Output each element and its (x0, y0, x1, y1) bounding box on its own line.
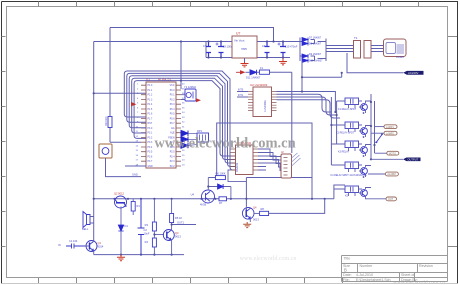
junction dot bridge bottom (301, 72, 343, 79)
title block (342, 256, 448, 282)
svg-text:LAMP1: LAMP1 (386, 126, 395, 129)
LED D12 (181, 131, 188, 137)
bus wire L3 (129, 76, 235, 163)
speaker LS1 (82, 212, 94, 232)
transistor Q7 (359, 145, 371, 157)
svg-text:www.elecworld.com.cn: www.elecworld.com.cn (240, 256, 297, 262)
svg-text:P3.7: P3.7 (148, 161, 153, 163)
port P4 (385, 172, 398, 176)
svg-text:R1: R1 (137, 204, 141, 208)
svg-text:D10 1N4007: D10 1N4007 (309, 59, 323, 62)
inline resistor R7 on rail (219, 197, 227, 205)
wire mid IC bottom loop (228, 170, 246, 182)
svg-text:P1.2: P1.2 (148, 95, 153, 97)
svg-text:Vin Vout: Vin Vout (234, 39, 245, 43)
LED D14 (181, 143, 188, 149)
resistor R2 divider top (145, 199, 157, 231)
regulator U7 7805 (227, 32, 257, 63)
relay K3 (331, 141, 362, 154)
bus wire L4 (132, 78, 236, 159)
wire bottom rail of regulator section (206, 42, 290, 58)
svg-text:www.elecworld.com.cn: www.elecworld.com.cn (154, 136, 295, 152)
svg-text:D8 1N4007: D8 1N4007 (309, 43, 322, 46)
svg-text:E:\Design\sheet1.Sch: E:\Design\sheet1.Sch (356, 278, 391, 282)
svg-text:B: B (344, 268, 347, 273)
wire to port P4 (368, 173, 385, 175)
svg-text:D7 1N4007: D7 1N4007 (309, 37, 322, 40)
svg-text:Revision: Revision (419, 264, 433, 268)
switch S2 (375, 133, 383, 143)
svg-text:Y1 12MHz: Y1 12MHz (184, 85, 197, 89)
wire to net label 2 (371, 158, 403, 160)
MCU U1 (146, 78, 176, 169)
svg-text:C10 470uF: C10 470uF (285, 45, 298, 49)
svg-text:4-Jul-2010: 4-Jul-2010 (356, 273, 373, 277)
wire mid IC to connector row2 (258, 153, 281, 161)
svg-text:R8: R8 (261, 207, 265, 211)
transistor Q8 (359, 166, 371, 178)
svg-text:10uF: 10uF (144, 232, 150, 236)
connector J1 AC input (384, 39, 407, 59)
svg-text:C1 104: C1 104 (69, 239, 78, 243)
transformer T1 (349, 36, 377, 58)
svg-text:T1: T1 (354, 36, 358, 40)
svg-text:K2 RELAY-SPDT: K2 RELAY-SPDT (336, 132, 355, 135)
junction dots relay buses (330, 101, 375, 178)
svg-text:Date:: Date: (343, 273, 352, 277)
svg-text:R13 10K: R13 10K (105, 116, 108, 126)
wire to port P1 (375, 126, 385, 128)
svg-text:AC220: AC220 (396, 55, 404, 59)
wire vertical to bus at x=181 (180, 42, 182, 90)
svg-text:P0.3: P0.3 (170, 104, 175, 106)
junction dot bus (93, 80, 182, 95)
relay bus vertical right B (374, 101, 376, 153)
capacitor C2 electrolytic (216, 42, 225, 58)
svg-text:ALARM: ALARM (387, 173, 395, 176)
svg-text:P0.0: P0.0 (170, 90, 175, 92)
diode D5 (246, 70, 261, 80)
svg-text:RP1: RP1 (197, 129, 203, 133)
svg-text:P2.5: P2.5 (170, 152, 175, 154)
wire mid IC lower stubs (258, 167, 266, 171)
svg-text:P0.4: P0.4 (170, 109, 175, 111)
wire driver out 2 (277, 94, 332, 112)
svg-text:R7: R7 (219, 201, 223, 205)
svg-text:P3.6: P3.6 (148, 157, 153, 159)
svg-text:File:: File: (343, 278, 350, 282)
bus wire L5 (134, 81, 235, 156)
svg-text:Q2 9012: Q2 9012 (114, 192, 125, 196)
relay K5 (334, 186, 362, 198)
svg-text:P3.2: P3.2 (148, 138, 153, 140)
port P2 (384, 131, 397, 135)
svg-text:U4: U4 (191, 193, 195, 197)
svg-text:P2.2: P2.2 (170, 166, 175, 168)
svg-text:LAMP2: LAMP2 (386, 132, 395, 135)
crystal circuit Y1 (181, 85, 201, 103)
svg-text:OUTPUT: OUTPUT (408, 158, 419, 162)
svg-text:P3.5: P3.5 (148, 152, 153, 154)
diode D3 (302, 53, 322, 58)
rectifier bridge: wire bracket left (300, 38, 315, 62)
svg-text:C2: C2 (144, 228, 148, 232)
svg-text:K4 RELAY-SPDT 12V/120VAC/5A: K4 RELAY-SPDT 12V/120VAC/5A (331, 174, 367, 177)
wire to port P3 (375, 152, 387, 154)
svg-text:P3.3: P3.3 (148, 142, 153, 144)
svg-text:OUT: OUT (388, 198, 394, 201)
svg-text:P1.0: P1.0 (148, 85, 153, 87)
power arrow at MCU pin 9 (131, 102, 137, 106)
svg-text:ULN2003A: ULN2003A (264, 100, 267, 112)
svg-text:P1.4: P1.4 (148, 104, 153, 106)
junction dots power rail (180, 40, 284, 58)
wire driver input 2 (237, 94, 248, 97)
resistor network RP1 (188, 129, 209, 146)
optocoupler U4 (191, 190, 215, 207)
svg-text:9014: 9014 (98, 245, 104, 249)
wire divider to Q3 base (154, 234, 163, 236)
MCU pin names right column (168, 85, 175, 168)
svg-text:Q4: Q4 (253, 206, 257, 210)
svg-text:P0.7: P0.7 (170, 123, 175, 125)
wire driver out 4 (277, 100, 341, 118)
feedback diode D15 (207, 178, 231, 199)
bottom rail wire (94, 254, 184, 256)
fuse F1 (257, 66, 274, 75)
svg-text:Q3: Q3 (175, 231, 179, 235)
svg-text:Sheet of: Sheet of (401, 273, 414, 277)
MCU pin stubs right (176, 85, 181, 166)
svg-text:MAX232: MAX232 (236, 162, 239, 172)
svg-text:9013: 9013 (175, 235, 181, 239)
port P1 (384, 125, 397, 129)
wire H3 to MCU pin (94, 92, 146, 94)
bus wire L1 (124, 71, 235, 170)
port P3 (387, 151, 399, 155)
svg-text:P3.4: P3.4 (148, 147, 153, 149)
wire transformer to connector (376, 46, 384, 52)
svg-text:9013: 9013 (253, 218, 259, 222)
transistor Q3 (163, 229, 181, 255)
relay bus vertical right A (370, 94, 372, 160)
svg-text:P1.1: P1.1 (148, 90, 153, 92)
wire vertical V1 (110, 28, 141, 143)
wire VCC rail right of regulator (257, 41, 300, 43)
transistor Q2 on rail (114, 192, 127, 209)
wire mid IC to connector row1 (258, 149, 281, 157)
input cap C5 (58, 239, 85, 249)
wire H2 VCC rail left (94, 41, 232, 43)
svg-text:EA: EA (171, 127, 175, 130)
transistor Q6 (359, 126, 371, 138)
ground right of caps (279, 58, 287, 65)
big routing loop wire (208, 123, 312, 207)
svg-text:Title: Title (344, 257, 351, 261)
wire H1 top loop (110, 28, 274, 42)
svg-text:IN: IN (58, 243, 61, 247)
capacitor C4 electrolytic (278, 42, 287, 58)
svg-text:P1.5: P1.5 (148, 109, 153, 111)
svg-text:P3.0: P3.0 (148, 128, 153, 130)
svg-text:ALE: ALE (170, 132, 175, 135)
driver IC U2 (248, 83, 277, 117)
transistor Q4 (242, 206, 259, 223)
resistor R13 on V1 wire (105, 116, 112, 128)
connector J2 serial (281, 150, 301, 178)
wire R8 to rail riser (269, 199, 325, 214)
svg-text:RST: RST (148, 123, 153, 125)
wire mid IC to connector row3 (258, 156, 281, 164)
diode D4 (302, 59, 323, 63)
svg-text:Number: Number (360, 264, 374, 268)
svg-text:C7: C7 (203, 44, 207, 48)
svg-text:4N35: 4N35 (200, 203, 207, 207)
wire MCU lower left pin (125, 165, 146, 167)
capacitor C1 (206, 42, 211, 58)
svg-text:P1.6: P1.6 (148, 114, 153, 116)
svg-text:OUT1: OUT1 (177, 221, 184, 225)
main rail wire (94, 185, 345, 199)
svg-text:BELL: BELL (82, 227, 89, 231)
diode feed row: power arrow (236, 70, 246, 74)
wire to net label AC (302, 53, 403, 92)
svg-text:Q1: Q1 (98, 241, 102, 245)
svg-text:VCC: VCC (170, 85, 175, 87)
svg-text:C9: C9 (262, 44, 266, 48)
svg-text:P1.3: P1.3 (148, 100, 153, 102)
svg-text:D11 1N4007: D11 1N4007 (246, 76, 261, 80)
relay K1 (337, 98, 362, 111)
bus wire L2 (127, 73, 236, 166)
wire bridge to transformer (318, 39, 354, 62)
net label arrow OUTPUT (403, 158, 421, 162)
port P5 (386, 197, 397, 201)
wire driver input 1 (237, 89, 248, 92)
svg-text:GND: GND (132, 173, 138, 177)
svg-text:P0.6: P0.6 (170, 119, 175, 121)
resistor R4 divider bottom (145, 231, 157, 255)
wire mid IC to connector row4 (258, 160, 281, 168)
feedback resistor R6 (215, 172, 225, 180)
svg-text:Drawn By:: Drawn By: (401, 278, 418, 282)
wire to port P2 (371, 132, 384, 134)
ground below regulator (241, 62, 249, 67)
svg-text:P2.4: P2.4 (170, 157, 175, 159)
relay bus vertical left B (336, 101, 338, 144)
resistor R5 collector (170, 199, 183, 229)
relay K4 (331, 162, 362, 172)
svg-text:R4: R4 (145, 240, 149, 244)
svg-text:GND: GND (148, 166, 153, 168)
wire collector out (171, 221, 197, 226)
diode D1 (302, 37, 322, 42)
wire vertical V2 (93, 42, 95, 241)
junction dots rail (93, 198, 326, 256)
resistor R1 vertical (131, 199, 140, 215)
capacitor C3 (265, 42, 270, 58)
svg-text:K1 RELAY-SPDT: K1 RELAY-SPDT (338, 108, 357, 111)
MCU pin names left column (148, 85, 153, 168)
mid IC U3 (231, 141, 259, 175)
svg-text:P3.1: P3.1 (148, 133, 153, 135)
svg-text:R5 1K: R5 1K (175, 216, 182, 220)
svg-text:D1: D1 (125, 224, 129, 228)
transistor Q9 (359, 188, 386, 199)
diode D2 (302, 42, 322, 46)
net label arrow AC220V (403, 71, 423, 75)
capacitor C6 electrolytic (138, 199, 150, 255)
button S1 box (99, 144, 141, 177)
svg-text:U2 ULN2003: U2 ULN2003 (250, 83, 268, 87)
transistor Q1 input (85, 241, 104, 255)
svg-text:MOTO: MOTO (389, 152, 396, 155)
wire mid IC to connector row5 (258, 163, 281, 171)
relay K2 (331, 122, 362, 135)
svg-text:R6 100K: R6 100K (216, 172, 226, 176)
ground bottom rail (117, 255, 125, 261)
junction dot driver feed (301, 90, 303, 92)
svg-text:P1.7: P1.7 (148, 119, 153, 121)
svg-text:P0.5: P0.5 (170, 114, 175, 116)
relay bus vertical left A (330, 97, 332, 165)
LED D6 indicator (118, 207, 128, 255)
ground below Q4 (243, 222, 251, 228)
wire driver out top to relay column (277, 92, 336, 113)
MCU pin stubs left (141, 85, 146, 166)
wire diode row to right vertical (274, 72, 292, 153)
svg-text:U7: U7 (236, 32, 240, 36)
svg-text:INT1: INT1 (238, 94, 244, 97)
svg-text:P0.2: P0.2 (170, 100, 175, 102)
resistor R8 (254, 207, 269, 216)
svg-text:P2.3: P2.3 (170, 161, 175, 163)
MCU pin numbers (136, 84, 186, 167)
transistor Q5 (359, 101, 371, 113)
svg-text:K3 RELAY: K3 RELAY (338, 151, 350, 154)
svg-text:R3: R3 (145, 223, 149, 227)
svg-text:INT0: INT0 (238, 89, 244, 92)
wire driver out 3 (277, 97, 337, 115)
svg-text:P0.1: P0.1 (170, 95, 175, 97)
LED D13 (181, 137, 188, 143)
svg-text:AC220V: AC220V (408, 71, 419, 75)
svg-text:7805: 7805 (241, 47, 247, 51)
svg-text:D9 1N4007: D9 1N4007 (309, 53, 322, 56)
